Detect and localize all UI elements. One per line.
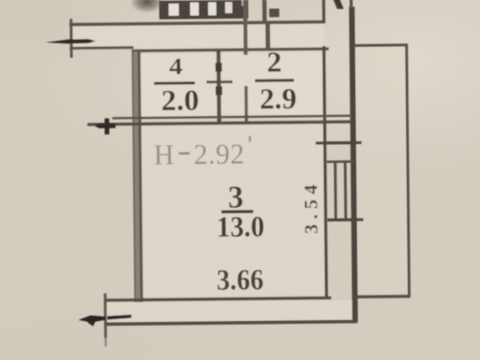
wall: corridor upper line (break line) — [69, 20, 325, 26]
section arrow bottom (pointing left) — [78, 315, 131, 327]
wall: left main wall — [132, 51, 143, 302]
wall: main right thick wall — [349, 7, 358, 322]
scan smudge artifact — [130, 0, 164, 13]
room 3 fraction bar — [221, 210, 253, 214]
wall stub x267 upper — [262, 0, 266, 24]
window W1 on right wall of room 3 — [316, 141, 364, 221]
stray tick artifact — [249, 136, 252, 142]
wall: right wall thin top piece — [350, 0, 353, 9]
room 4 floor (with room 2) — [139, 52, 323, 116]
door jamb stub between room 2 and room 3 — [244, 86, 248, 123]
ceiling height note H=2.92 — [154, 139, 245, 171]
hatched shaft block (cut off at top edge) — [159, 0, 248, 19]
break end cap bottom — [104, 293, 107, 338]
wall stub above room 2 (x247) — [243, 0, 248, 55]
wall blob right of x267 stub — [269, 9, 279, 18]
entrance cross arrow at left wall — [94, 118, 115, 134]
corridor floor strip at top — [73, 25, 323, 49]
balcony bottom line — [356, 295, 410, 299]
balcony top line — [354, 44, 408, 47]
room 4 fraction bar — [154, 81, 195, 84]
wall connector x267 between corridor lines — [265, 22, 270, 50]
wall: corridor lower line left segment — [70, 46, 134, 49]
room 2 fraction bar — [255, 79, 294, 82]
balcony right line — [405, 44, 410, 297]
balcony floor — [356, 47, 408, 293]
wall: inner right wall of rooms 2 and 3 — [322, 46, 328, 297]
bottom wall cavity fill — [107, 300, 353, 322]
wall: lower line between top rooms and room 3 (runs to entrance) — [87, 120, 352, 126]
section arrow top (pointing left) — [46, 39, 96, 44]
wall stub x325 (above corridor line) — [322, 0, 325, 22]
break end cap top — [70, 19, 73, 58]
wall: partition between rooms 4 and 2 with door opening — [206, 50, 233, 123]
break cap bottom faint tail — [105, 337, 107, 346]
wall: top wall of rooms 4 and 2 — [132, 47, 329, 52]
wall: bottom wall outer line — [105, 320, 357, 326]
room 3 floor — [140, 125, 324, 297]
slanted dash mark top right — [333, 0, 344, 9]
wall: upper line between top rooms and room 3 — [112, 115, 352, 120]
wall: bottom wall inner line — [105, 296, 331, 301]
